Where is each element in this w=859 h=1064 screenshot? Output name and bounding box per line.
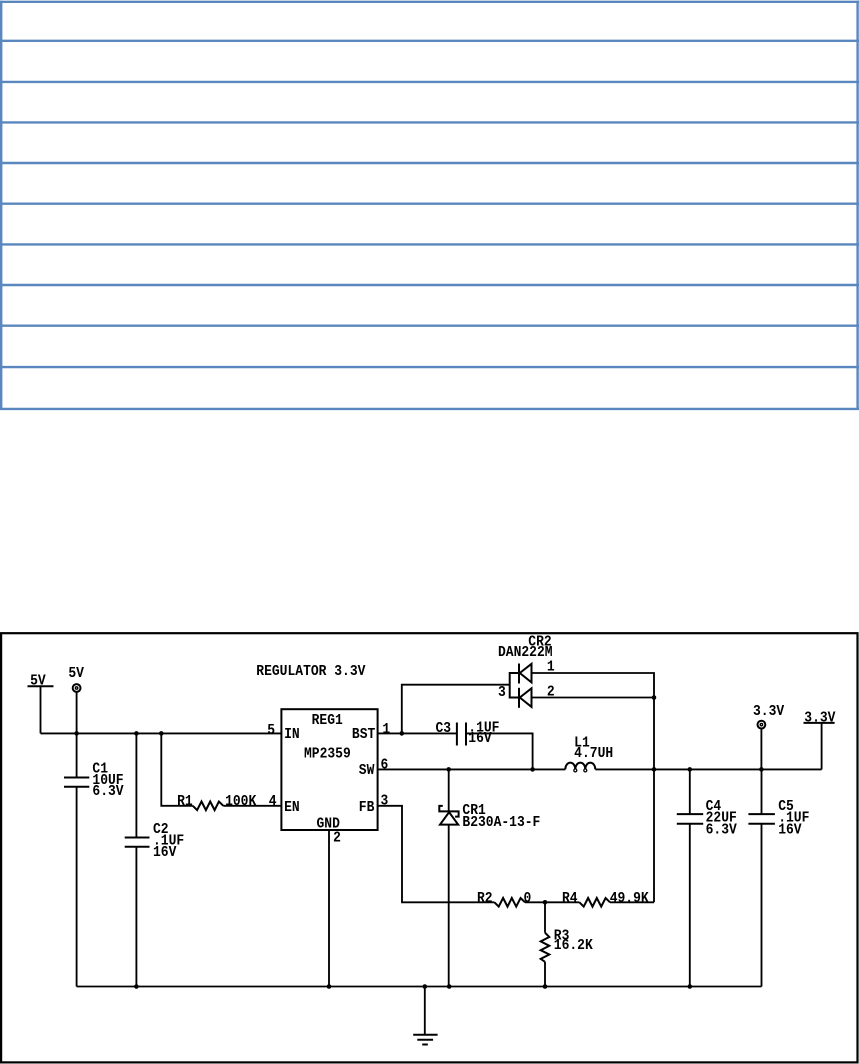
node CR1 gnd junction (447, 984, 452, 989)
svg-text:2: 2 (333, 831, 341, 847)
diode CR1 B230A-13-F (439, 769, 540, 986)
node 3.3V connector junction (759, 767, 764, 772)
svg-text:FB: FB (359, 800, 375, 816)
svg-text:1: 1 (382, 722, 390, 738)
svg-text:16V: 16V (778, 823, 802, 839)
capacitor C4 (677, 769, 738, 986)
node output CR2 junction (652, 767, 657, 772)
node FB divider junction (543, 900, 548, 905)
wire CR2 pin2 (532, 697, 655, 699)
node CR1 junction (446, 767, 451, 772)
power connector 3.3V (753, 704, 785, 769)
svg-text:5: 5 (267, 723, 275, 739)
node R3 gnd junction (543, 984, 548, 989)
node BST junction (400, 731, 405, 736)
svg-text:3.3V: 3.3V (753, 704, 785, 720)
svg-text:R2: R2 (477, 892, 493, 908)
wire GND pin drop (328, 830, 330, 987)
capacitor C1 (64, 733, 124, 986)
wire 3.3V label stem (821, 723, 823, 770)
wire SW net (378, 768, 566, 770)
svg-text:4.7UH: 4.7UH (574, 746, 613, 762)
node GND pin junction (327, 984, 332, 989)
wire output vertical (653, 698, 655, 903)
wire R1 drop (161, 733, 193, 805)
inductor L1 (565, 736, 613, 772)
wire 5V connector stem (76, 692, 78, 733)
resistor R1 (177, 794, 257, 810)
diode CR2 DAN222M dual (498, 635, 555, 708)
wire C3 to SW (466, 733, 533, 769)
node C4 gnd junction (688, 984, 693, 989)
wire 5V label stem (40, 686, 42, 733)
wire 5V top bus (41, 732, 282, 734)
resistor R3 (541, 902, 594, 986)
svg-text:R1: R1 (177, 794, 193, 810)
svg-text:6.3V: 6.3V (706, 823, 738, 839)
svg-text:5V: 5V (68, 667, 84, 683)
node C4 junction (688, 767, 693, 772)
svg-text:EN: EN (284, 800, 300, 816)
svg-text:3.3V: 3.3V (804, 711, 836, 727)
wire R4 to output vertical (610, 901, 654, 903)
resistor R2 (477, 892, 531, 908)
wire R1 to EN pin (223, 805, 281, 807)
node C2 gnd junction (134, 984, 139, 989)
svg-text:3: 3 (381, 794, 389, 810)
wire bottom ground bus (77, 986, 762, 988)
wire node to R4 (545, 901, 579, 903)
svg-text:49.9K: 49.9K (610, 892, 650, 908)
svg-text:B230A-13-F: B230A-13-F (462, 815, 540, 831)
wire CR2 pin1 (532, 673, 655, 698)
svg-text:6.3V: 6.3V (92, 785, 124, 801)
wire BST stub (378, 732, 457, 734)
svg-text:BST: BST (352, 728, 375, 744)
svg-text:SW: SW (359, 763, 375, 779)
svg-text:DAN222M: DAN222M (498, 646, 553, 662)
svg-text:REG1: REG1 (312, 713, 343, 729)
svg-text:5V: 5V (30, 674, 46, 690)
table border frame (0, 1, 859, 410)
svg-text:IN: IN (284, 728, 300, 744)
node ground symbol junction (423, 984, 428, 989)
wire L1 to output (595, 768, 821, 770)
wire R2 to node (525, 901, 545, 903)
power connector 5V (68, 667, 84, 692)
node C1 junction (74, 731, 79, 736)
svg-text:6: 6 (381, 758, 389, 774)
capacitor C3 (436, 721, 500, 747)
svg-text:0: 0 (524, 892, 532, 908)
resistor R4 (562, 892, 649, 908)
svg-text:100K: 100K (225, 794, 257, 810)
svg-text:16V: 16V (153, 846, 177, 862)
svg-text:REGULATOR 3.3V: REGULATOR 3.3V (256, 665, 366, 681)
svg-text:16.2K: 16.2K (554, 939, 594, 955)
wire FB net (378, 806, 495, 903)
node C2 junction (134, 731, 139, 736)
net label 3.3V (804, 711, 837, 727)
svg-text:MP2359: MP2359 (304, 747, 351, 763)
node C3 junction (530, 767, 535, 772)
svg-text:C3: C3 (436, 722, 452, 738)
capacitor C5 (748, 769, 809, 986)
svg-text:R4: R4 (562, 892, 578, 908)
schematic sheet frame (1, 633, 857, 1062)
ground (413, 987, 437, 1045)
svg-text:4: 4 (269, 794, 277, 810)
capacitor C2 (125, 733, 184, 986)
wire BST to CR2 pin3 (402, 685, 510, 734)
node R1 junction (159, 731, 164, 736)
node CR2 pin2 junction (652, 695, 657, 700)
net label 5V (28, 674, 54, 690)
IC U1 REG1 MP2359 (281, 709, 377, 833)
svg-text:3: 3 (498, 686, 506, 702)
